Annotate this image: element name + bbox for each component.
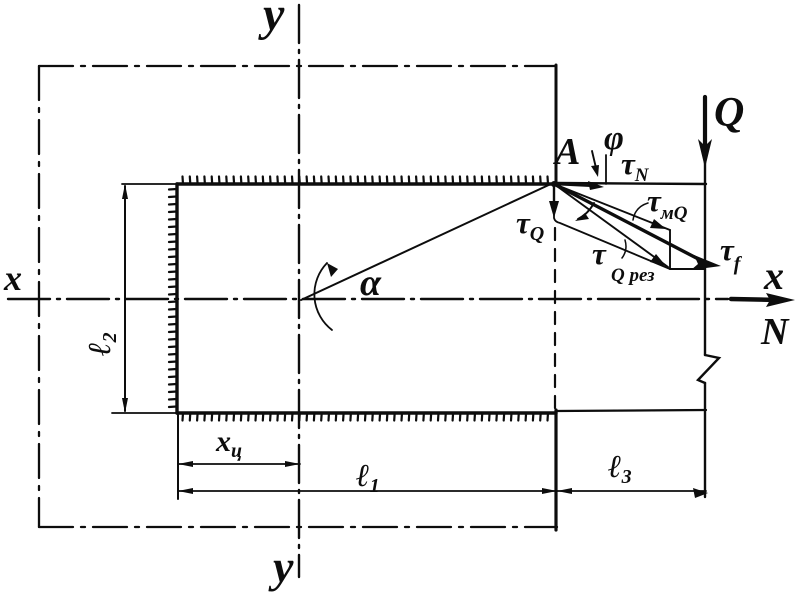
small phi arrow: [592, 151, 596, 168]
outer dash-dot border top: [39, 65, 556, 67]
parallelogram side vertical: [669, 230, 671, 269]
svg-text:x: x: [763, 253, 784, 298]
svg-text:φ: φ: [604, 120, 624, 157]
outer dash-dot border bottom: [39, 526, 557, 528]
svg-text:N: N: [760, 311, 790, 353]
svg-text:τмQ: τмQ: [647, 183, 688, 224]
svg-text:y: y: [268, 541, 294, 592]
bottom weld seam line: [112, 412, 178, 414]
dimension l2 line: [124, 186, 126, 411]
svg-text:A: A: [553, 131, 580, 173]
parallelogram side bottom: [670, 268, 705, 270]
svg-text:α: α: [360, 262, 382, 304]
radius line from centroid to point A: [301, 183, 553, 300]
outer dash-dot border left: [38, 66, 40, 527]
left weld hatching: [169, 189, 177, 407]
y axis centerline: [298, 5, 300, 577]
x axis centerline: [8, 298, 728, 300]
svg-text:ℓ1: ℓ1: [356, 457, 380, 497]
vector tau_Q_rez (resultant of Q and M): [554, 184, 668, 267]
force Q arrow: [703, 97, 707, 152]
vector tau_Q (down from A): [553, 186, 555, 208]
svg-text:xц: xц: [215, 425, 242, 462]
right border dashed middle segment: [554, 228, 556, 410]
dimension l3 line: [557, 490, 706, 492]
top weld seam line: [122, 183, 178, 185]
dimension x_c line: [178, 463, 300, 465]
svg-text:τf: τf: [720, 232, 743, 275]
svg-text:ℓ2: ℓ2: [81, 332, 121, 356]
force N arrow: [731, 299, 779, 300]
svg-text:Q рез: Q рез: [611, 265, 655, 286]
point A: [551, 181, 557, 187]
extension line below left weld: [177, 415, 179, 499]
svg-text:ℓ3: ℓ3: [608, 448, 632, 488]
svg-text:y: y: [258, 0, 285, 41]
right border solid lower segment: [554, 410, 557, 530]
leader curve tau_MQ: [633, 203, 648, 220]
vector tau_f (full resultant, thick): [554, 184, 706, 263]
small angle arc arrow at A: [578, 203, 594, 219]
right border solid upper segment: [555, 65, 558, 184]
angle alpha arc: [314, 263, 332, 330]
svg-text:τN: τN: [621, 146, 650, 186]
leader curve tau_Q_rez: [622, 240, 626, 258]
bottom weld hatching: [183, 413, 549, 421]
right plate edge with break: [704, 162, 706, 355]
angle phi reference line: [605, 155, 607, 184]
svg-text:τ: τ: [592, 236, 607, 271]
svg-text:τQ: τQ: [516, 205, 544, 245]
dimension l1 line: [178, 490, 557, 492]
parallelogram side from tau_Q tip: [554, 214, 670, 269]
svg-text:x: x: [3, 258, 22, 298]
left weld seam line: [175, 184, 178, 413]
vector tau_MQ: [554, 184, 670, 230]
svg-text:Q: Q: [714, 90, 744, 136]
vector tau_N (short, along seam): [554, 184, 596, 186]
top weld hatching: [183, 177, 549, 185]
